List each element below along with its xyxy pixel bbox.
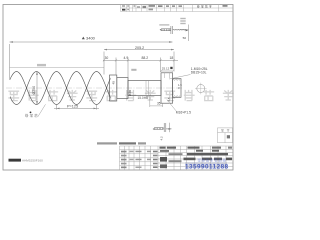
svg-text:AHM5250F160: AHM5250F160: [22, 159, 43, 163]
table tiny cell marks: [122, 5, 228, 11]
svg-text:13599011288: 13599011288: [185, 164, 229, 171]
svg-text:Ø250: Ø250: [32, 86, 36, 95]
svg-text:35: 35: [157, 102, 161, 106]
small note above mid shaft + groove and hidden-hole lines: [131, 69, 136, 71]
svg-text:3400: 3400: [86, 36, 96, 41]
phi250 vertical dimension: [36, 72, 38, 105]
svg-text:4.2: 4.2: [159, 136, 163, 141]
shaft end part outline: [110, 73, 182, 103]
svg-text:DB15+10L: DB15+10L: [191, 71, 207, 75]
svg-text:M16×P1.5: M16×P1.5: [176, 111, 191, 115]
P=125 pitch dimension: [54, 105, 99, 110]
svg-text:88.2: 88.2: [142, 56, 149, 60]
tapped hole end view: [197, 85, 205, 93]
205.2 dimension: [104, 50, 174, 75]
border frame: [3, 5, 233, 171]
svg-text:18: 18: [170, 56, 174, 60]
blue watermark: [197, 158, 226, 161]
flight length extension line: [10, 66, 105, 68]
note above title block: [97, 142, 146, 144]
svg-text:30: 30: [105, 56, 109, 60]
svg-text:15.0HB: 15.0HB: [138, 96, 149, 100]
overall 3400 dimension line: [10, 42, 173, 80]
svg-text:2.5: 2.5: [167, 97, 171, 101]
screw centerline: [6, 87, 183, 89]
rotation label + leader: [30, 112, 32, 114]
watermark company name (light gray fake hanzi row): [8, 90, 233, 101]
svg-text:45: 45: [112, 81, 116, 85]
thread crest zigzag on M16 stub: [173, 79, 180, 98]
svg-text:4.9: 4.9: [124, 56, 129, 60]
bottom stud mini view: [153, 128, 155, 130]
table header hanzi (dark): [197, 5, 211, 7]
svg-text:50: 50: [183, 36, 187, 40]
title block grid: [120, 146, 234, 170]
chain dimensions 30 / 4.9 / 88.2 / 18: [103, 58, 178, 80]
svg-text:P=125: P=125: [67, 105, 78, 109]
top revision table grid: [121, 5, 234, 12]
svg-text:25.12: 25.12: [162, 67, 170, 71]
title block text blobs: [121, 147, 232, 169]
bottom-left part number: [9, 159, 22, 162]
qty table: [218, 128, 233, 143]
svg-text:Ø48: Ø48: [128, 90, 132, 96]
screw flight curves (helix): [0, 72, 117, 105]
svg-text:205.2: 205.2: [135, 46, 144, 50]
top-right stud mini view: [159, 24, 169, 25]
internal rotated dims: [112, 81, 116, 85]
